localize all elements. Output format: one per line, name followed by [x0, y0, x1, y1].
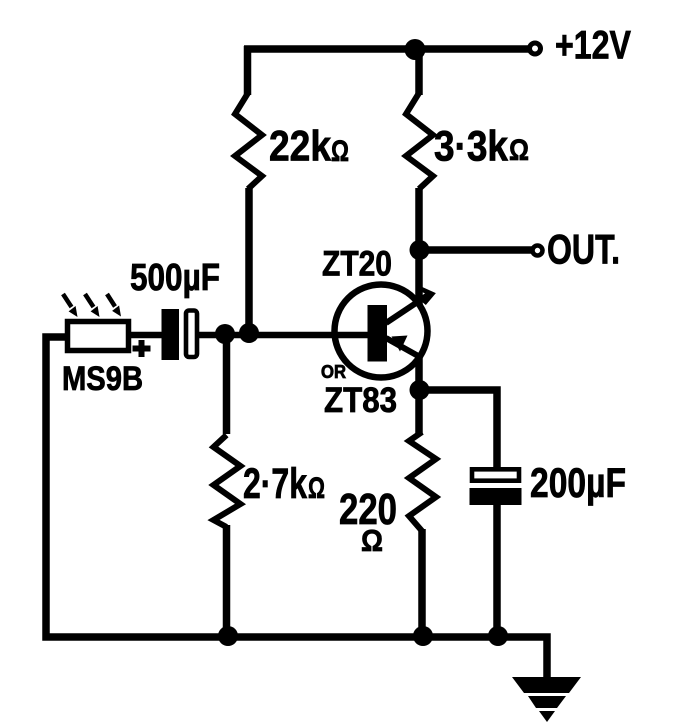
- svg-text:Ω: Ω: [308, 472, 325, 505]
- capacitor 500uF solid plate: [162, 309, 180, 360]
- resistor 22k zigzag: [235, 93, 262, 189]
- terminal +12V open circle: [530, 43, 541, 54]
- wire: emitter to 200uF branch: [419, 390, 497, 470]
- transistor base bar: [368, 305, 388, 362]
- svg-text:Ω: Ω: [361, 523, 383, 558]
- terminal OUT open circle: [533, 246, 543, 256]
- wire: left branch top (rail to R 22k): [244, 46, 252, 95]
- ground symbol bar 1: [512, 677, 581, 693]
- light arrow 1: [63, 294, 72, 307]
- transistor emitter lead: [386, 338, 420, 357]
- junction: base node left: [215, 324, 235, 344]
- resistor 2.7k zigzag: [214, 435, 241, 527]
- svg-text:+12V: +12V: [555, 24, 631, 68]
- wire: 2.7k branch top: [223, 334, 231, 434]
- wire: base (photocell/cap to transistor bar): [129, 332, 370, 339]
- capacitor 200uF solid plate: [470, 488, 522, 505]
- svg-text:MS9B: MS9B: [62, 360, 143, 398]
- svg-text:22k: 22k: [269, 123, 331, 171]
- wire: 2.7k branch bottom: [223, 525, 231, 640]
- resistor 220 zigzag: [409, 432, 436, 531]
- svg-text:Ω: Ω: [331, 135, 349, 168]
- junction: bottom rail node 3: [488, 626, 508, 646]
- svg-text:200µF: 200µF: [530, 459, 626, 506]
- junction: supply node: [405, 39, 426, 60]
- wire: left loop (photocell to bottom rail, bottom rail, ground stem): [46, 337, 547, 680]
- photocell MS9B body: [68, 322, 129, 351]
- svg-text:ZT83: ZT83: [324, 381, 397, 420]
- svg-text:Ω: Ω: [509, 134, 529, 167]
- wire: 220 bottom lead: [418, 529, 426, 640]
- svg-text:ZT20: ZT20: [322, 245, 392, 284]
- junction: bottom rail node 2: [413, 626, 433, 646]
- light arrow 3: [107, 294, 115, 307]
- svg-text:OUT.: OUT.: [547, 226, 620, 273]
- svg-text:3·3k: 3·3k: [434, 123, 508, 171]
- junction: emitter node: [410, 380, 430, 400]
- wire: OUT tap: [419, 246, 532, 254]
- svg-text:500µF: 500µF: [130, 257, 220, 299]
- svg-text:2·7k: 2·7k: [243, 460, 307, 508]
- junction: base node right: [239, 323, 259, 343]
- transistor emitter arrowhead: [392, 336, 408, 352]
- resistor 3.3k zigzag: [406, 93, 433, 189]
- plus sign polarity: [133, 340, 151, 357]
- wire: 200uF to bottom rail: [493, 502, 501, 640]
- transistor collector lead: [386, 293, 431, 323]
- wire: top +12V rail: [244, 45, 529, 53]
- ground symbol bar 2: [528, 696, 566, 708]
- junction: OUT node: [410, 240, 430, 260]
- transistor collector arrowhead: [421, 289, 432, 304]
- wire: right branch vertical (rail to bottom rail, behind transistor): [415, 46, 423, 434]
- capacitor 200uF hollow plate: [472, 469, 519, 480]
- ground symbol bar 3: [539, 711, 555, 722]
- transistor Q1 circle (white fill masks wire): [335, 285, 428, 378]
- svg-text:OR: OR: [321, 362, 346, 382]
- junction: bottom rail node 1: [218, 626, 238, 646]
- wire: left branch bottom (R 22k to base node): [245, 188, 253, 335]
- capacitor 500uF hollow plate: [186, 311, 197, 358]
- light arrow 2: [85, 294, 94, 307]
